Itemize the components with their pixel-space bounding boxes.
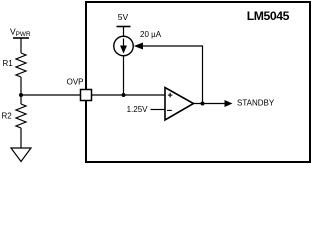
node comparator output junction <box>201 102 205 106</box>
label LM5045 <box>247 9 290 23</box>
wire junction to R2 <box>20 95 22 104</box>
node VPWR <box>10 27 31 39</box>
IC U1 LM5045 box <box>86 2 310 162</box>
svg-text:LM5045: LM5045 <box>247 9 290 23</box>
current source I1 20uA <box>114 30 162 56</box>
svg-text:1.25V: 1.25V <box>127 105 149 114</box>
svg-text:OVP: OVP <box>67 77 84 86</box>
wire R2 to ground <box>20 128 22 148</box>
node 1.25V reference <box>127 105 165 114</box>
svg-text:20 µA: 20 µA <box>140 30 162 39</box>
node junction current source / OVP wire <box>122 93 126 97</box>
ground <box>11 148 31 162</box>
wire feedback output to current source (vertical) <box>202 46 204 104</box>
wire junction to OVP pin <box>21 94 81 96</box>
wire R1 to junction <box>20 77 22 95</box>
svg-text:STANDBY: STANDBY <box>237 98 275 107</box>
wire VPWR to R1 <box>20 38 22 53</box>
op-amp U2 comparator <box>165 88 194 121</box>
wire comparator output <box>194 103 226 105</box>
wire 5V to current source <box>123 27 125 37</box>
svg-text:R1: R1 <box>3 59 14 68</box>
node STANDBY <box>225 98 275 107</box>
resistor R2 <box>2 104 27 128</box>
wire OVP pin to comparator + input <box>92 94 166 96</box>
wire current source to OVP net <box>123 56 125 95</box>
node 5V <box>117 12 131 26</box>
wire arrow into current source <box>134 43 143 50</box>
svg-text:R2: R2 <box>2 111 13 120</box>
wire feedback horizontal <box>142 45 203 47</box>
svg-text:5V: 5V <box>118 12 129 22</box>
pin OVP <box>67 77 92 100</box>
node junction R1/R2/OVP <box>19 93 23 97</box>
resistor R1 <box>3 53 27 77</box>
